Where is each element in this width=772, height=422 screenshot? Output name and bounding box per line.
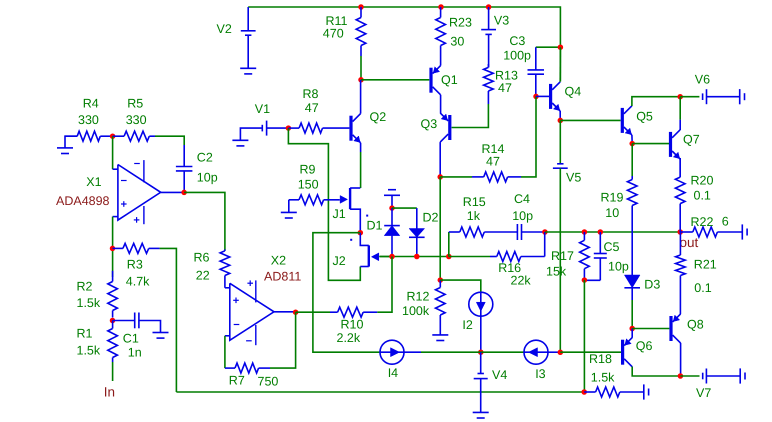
svg-text:I4: I4 — [388, 366, 398, 380]
svg-text:470: 470 — [323, 27, 344, 41]
svg-text:750: 750 — [258, 375, 279, 389]
wire X2 in- down — [224, 336, 226, 368]
node top rail / V3 — [486, 4, 492, 10]
svg-text:X2: X2 — [271, 253, 286, 267]
node C3 bottom / Q4 base — [533, 94, 539, 100]
resistor R14 — [440, 176, 472, 178]
svg-text:330: 330 — [78, 113, 99, 127]
wire I4 right to I2 node — [404, 351, 421, 353]
svg-text:30: 30 — [450, 35, 464, 49]
svg-text:15k: 15k — [546, 265, 567, 279]
resistor R20 — [679, 158, 681, 177]
J1 drain lead — [350, 187, 360, 189]
transistor Q4 — [549, 84, 552, 109]
voltage source V3 — [488, 7, 490, 30]
wire out line — [545, 231, 680, 233]
wire bottom rail — [176, 391, 584, 393]
svg-text:C1: C1 — [123, 331, 139, 345]
X2 in+ stub — [225, 287, 230, 289]
transistor Q1 — [429, 68, 432, 93]
ground at R9 left — [288, 200, 290, 213]
svg-text:R3: R3 — [127, 257, 143, 271]
node R11 bottom / Q1 base / Q2 collector — [358, 77, 364, 83]
resistor R22 — [680, 231, 693, 233]
wire Q1 base from R11 node — [361, 79, 429, 81]
transistor Q8 — [669, 316, 672, 341]
resistor R12 — [439, 280, 441, 287]
ground below V4 — [473, 411, 489, 413]
J1 source lead — [350, 209, 360, 233]
svg-text:D2: D2 — [423, 211, 439, 225]
Q4 base wire — [536, 95, 549, 97]
svg-text:0.1: 0.1 — [694, 281, 711, 295]
svg-text:X1: X1 — [86, 175, 101, 189]
svg-text:10p: 10p — [608, 259, 629, 273]
node top right / V6 — [677, 94, 683, 100]
svg-text:V1: V1 — [255, 102, 270, 116]
svg-text:0.1: 0.1 — [694, 189, 711, 203]
Q7 emitter wire — [679, 159, 681, 177]
resistor R21 — [679, 232, 681, 255]
svg-text:R18: R18 — [589, 352, 612, 366]
wire R5 to C2 top — [155, 136, 184, 145]
svg-text:R9: R9 — [300, 162, 316, 176]
resistor R17 — [583, 232, 585, 240]
voltage source V7 — [680, 375, 699, 377]
diode D2 — [416, 208, 418, 228]
svg-text:10p: 10p — [197, 170, 218, 184]
resistor R4 — [65, 135, 77, 137]
node Q8 collector / V7 — [678, 373, 684, 379]
svg-text:Q3: Q3 — [421, 117, 438, 131]
voltage source V5 — [559, 120, 561, 163]
wire Q5 emitter node to Q7 base — [632, 143, 669, 145]
Q5 emitter wire — [631, 135, 633, 144]
svg-text:C2: C2 — [197, 150, 213, 164]
capacitor C5 — [599, 232, 601, 254]
voltage source V2 — [247, 7, 249, 31]
wire x=560 rail down to Q4 collector — [559, 47, 561, 81]
svg-text:1n: 1n — [128, 345, 142, 359]
wire R3 right to bottom rail — [160, 248, 177, 392]
node R1/R2/C1 — [110, 318, 116, 324]
node Q4 emitter / V5 / Q5 base — [558, 118, 564, 124]
X1 supply bar bottom — [143, 206, 145, 224]
svg-text:Q2: Q2 — [370, 110, 387, 124]
svg-text:47: 47 — [498, 81, 512, 95]
transistor Q5 — [621, 108, 624, 133]
node I2 / rail / V4 — [478, 349, 484, 355]
node rail / V5 bottom — [558, 350, 564, 356]
svg-text:V7: V7 — [696, 386, 711, 400]
svg-text:4.7k: 4.7k — [126, 274, 150, 288]
svg-text:R7: R7 — [229, 373, 245, 387]
svg-text:330: 330 — [126, 113, 147, 127]
capacitor C2 — [183, 145, 185, 167]
transistor Q7 — [669, 132, 672, 157]
svg-text:R2: R2 — [77, 279, 93, 293]
voltage source V6 — [680, 96, 699, 98]
resistor R3 — [113, 247, 123, 249]
terminator R22 — [741, 224, 743, 239]
Q6 emitter wire — [631, 329, 633, 338]
svg-text:D1: D1 — [367, 219, 383, 233]
pin dot J2 — [350, 239, 352, 241]
svg-text:C4: C4 — [514, 192, 530, 206]
wire Q3 collector down to node — [439, 142, 441, 177]
node bottom rail / R18 — [581, 389, 587, 395]
J2 source lead — [360, 266, 369, 268]
resistor R10 — [296, 311, 330, 313]
node R15/R16 left — [446, 254, 452, 260]
wire X1 in- drop — [112, 136, 114, 169]
X1 supply bar top — [143, 160, 145, 182]
svg-text:V4: V4 — [492, 368, 507, 382]
svg-text:R17: R17 — [551, 249, 574, 263]
wire I2 node to I3 — [481, 351, 524, 353]
svg-text:C5: C5 — [604, 240, 620, 254]
Q4 collector wire — [559, 47, 561, 82]
node R3 left — [110, 246, 116, 252]
svg-text:J2: J2 — [333, 254, 346, 268]
wire R13 bottom to Q3 base — [452, 104, 489, 128]
ground below R12 — [439, 317, 441, 335]
resistor R1 — [112, 321, 114, 329]
svg-text:R22: R22 — [691, 215, 714, 229]
diode D1 — [391, 208, 393, 226]
ground at C1 right — [153, 332, 169, 334]
wire Q3 collector node down — [439, 177, 441, 280]
X1 in+ stub — [113, 216, 118, 218]
X1 in- marker — [121, 180, 127, 182]
svg-text:I3: I3 — [535, 367, 545, 381]
svg-text:AD811: AD811 — [264, 270, 301, 284]
svg-text:V5: V5 — [566, 171, 581, 185]
node D2 bottom — [414, 254, 420, 260]
wire Q4 emitter node to Q5 base — [560, 119, 620, 121]
svg-text:Q6: Q6 — [636, 339, 653, 353]
node J1 source / J2 drain — [358, 230, 364, 236]
svg-text:100p: 100p — [503, 49, 531, 63]
X2 supply bar bottom — [255, 325, 257, 345]
wire Q2 collector up to R11 node — [360, 80, 362, 114]
I2 bottom lead — [480, 316, 482, 352]
ground above D1 — [391, 195, 393, 208]
svg-text:R6: R6 — [194, 251, 210, 265]
node top rail / R11 — [358, 4, 364, 10]
node R12 top — [438, 277, 444, 283]
X1 in+ marker — [121, 203, 127, 205]
op-amp X2 — [230, 283, 274, 340]
wire R12 node to I2 — [440, 280, 481, 292]
wire J1/J2 node left and down to I4 — [313, 233, 380, 353]
Q4 emitter wire — [559, 111, 561, 120]
svg-text:1.5k: 1.5k — [77, 296, 101, 310]
node top rail / R23 — [438, 4, 444, 10]
svg-text:R10: R10 — [341, 318, 364, 332]
node D1 bottom — [389, 254, 395, 260]
wire top rail from V2 to x=560 — [248, 7, 560, 47]
svg-text:1k: 1k — [467, 209, 481, 223]
svg-text:R19: R19 — [601, 190, 624, 204]
svg-text:100k: 100k — [402, 304, 430, 318]
svg-text:V6: V6 — [695, 72, 710, 86]
svg-text:I2: I2 — [462, 318, 472, 332]
current source I4 — [380, 340, 404, 364]
svg-text:10p: 10p — [512, 209, 533, 223]
svg-text:R5: R5 — [127, 97, 143, 111]
Q8 emitter wire — [679, 313, 681, 315]
wire in+ down — [112, 217, 114, 277]
svg-text:6: 6 — [722, 215, 729, 229]
transistor Q6 — [621, 340, 624, 365]
svg-text:22: 22 — [196, 269, 210, 283]
svg-text:In: In — [104, 385, 115, 400]
wire Q8 base — [632, 328, 669, 330]
svg-text:C3: C3 — [509, 34, 525, 48]
node out — [677, 229, 683, 235]
svg-text:Q4: Q4 — [565, 84, 582, 98]
svg-text:22k: 22k — [511, 273, 532, 287]
Q8 collector wire — [680, 343, 682, 376]
jfet J2 — [368, 245, 370, 266]
Q7 collector wire — [679, 120, 681, 130]
svg-text:2.2k: 2.2k — [337, 331, 361, 345]
svg-text:J1: J1 — [333, 207, 346, 221]
node R17 top — [582, 229, 588, 235]
wire R17 bottom down to bottom rail — [583, 280, 585, 392]
svg-text:Q1: Q1 — [441, 73, 458, 87]
I3 right lead — [548, 351, 560, 353]
svg-text:R1: R1 — [77, 326, 93, 340]
wire Q1 collector down to Q3 emitter — [440, 95, 442, 113]
resistor R9 — [289, 199, 299, 201]
ground at R4 left — [65, 136, 77, 148]
svg-text:R12: R12 — [407, 289, 430, 303]
resistor R18 — [584, 391, 595, 393]
svg-text:10: 10 — [605, 206, 619, 220]
svg-text:R20: R20 — [691, 173, 714, 187]
capacitor C1 — [113, 320, 135, 322]
voltage source V1 — [240, 128, 262, 140]
resistor R16 — [449, 256, 490, 258]
wire diode bottom line — [380, 256, 449, 258]
wire V1 node down to J2 source — [288, 128, 360, 280]
current source I2 — [469, 292, 493, 316]
svg-text:V2: V2 — [217, 22, 232, 36]
svg-text:47: 47 — [486, 154, 500, 168]
svg-text:150: 150 — [298, 178, 319, 192]
resistor R11 — [360, 7, 362, 18]
resistor R7 — [225, 367, 235, 369]
X1 output stub — [161, 191, 184, 193]
svg-text:V3: V3 — [494, 14, 509, 28]
wire R10 right up to diode node — [377, 257, 392, 313]
svg-text:1.5k: 1.5k — [591, 370, 615, 384]
svg-text:47: 47 — [305, 101, 319, 115]
current source I3 — [524, 340, 548, 364]
transistor Q3 — [448, 115, 451, 140]
svg-text:Q7: Q7 — [683, 133, 700, 147]
wire R7 right up to X2 out — [270, 312, 296, 368]
wire In lead — [112, 362, 114, 381]
voltage source V4 — [480, 352, 482, 373]
node C4 / R16 / out line — [542, 229, 548, 235]
node C3 top corner — [558, 44, 564, 50]
svg-text:R23: R23 — [449, 16, 472, 30]
diode D3 — [631, 232, 633, 275]
wire X1 out to R6 — [184, 192, 225, 250]
transistor Q2 — [349, 116, 352, 141]
ground below V1 — [232, 139, 248, 141]
svg-text:R21: R21 — [694, 257, 717, 271]
resistor R2 — [112, 271, 114, 282]
ground below V2 — [240, 67, 256, 69]
resistor R13 — [487, 64, 489, 67]
capacitor C4 — [516, 224, 518, 240]
svg-text:ADA4898: ADA4898 — [56, 194, 110, 208]
X2 output stub — [274, 311, 296, 313]
node D1 top — [389, 205, 395, 211]
svg-text:out: out — [680, 235, 699, 250]
X2 in- marker — [234, 324, 240, 326]
Q5 collector wire — [632, 97, 680, 106]
svg-text:R15: R15 — [463, 195, 486, 209]
wire R14 right up to Q4 base node — [521, 96, 536, 176]
svg-text:R4: R4 — [83, 97, 99, 111]
pin dot J1 — [366, 215, 368, 217]
resistor R5 — [113, 135, 125, 137]
node X2 out — [293, 309, 299, 315]
node R17/C5 bottom — [582, 277, 588, 283]
wire rail to Q6 base — [560, 351, 621, 353]
resistor R6 — [224, 249, 226, 250]
resistor R19 — [631, 144, 633, 176]
resistor R8 — [288, 127, 299, 129]
capacitor C3 — [536, 46, 561, 48]
svg-text:D3: D3 — [644, 278, 660, 292]
resistor R15 — [448, 232, 450, 257]
svg-text:Q5: Q5 — [636, 110, 653, 124]
resistor R23 — [440, 7, 442, 18]
J2 drain lead — [360, 233, 369, 246]
terminator V6 — [739, 89, 741, 104]
Q6 collector wire — [632, 367, 680, 376]
X2 in- stub — [225, 335, 230, 337]
node D3 bottom / Q6 emitter / Q8 base — [629, 326, 635, 332]
terminator V7 — [739, 368, 741, 383]
node X1 out / C2 bottom — [181, 190, 187, 196]
terminator R18 — [643, 384, 645, 399]
J2 gate wire — [379, 256, 392, 258]
node Q3 collector / R14 — [437, 174, 443, 180]
X2 supply bar top — [255, 280, 257, 302]
node V1 / R8 — [286, 125, 292, 131]
node C5 top — [598, 229, 604, 235]
jfet J1 — [349, 188, 351, 209]
node Q5 emitter / Q7 base / R19 — [629, 141, 635, 147]
svg-text:R8: R8 — [303, 87, 319, 101]
svg-text:Q8: Q8 — [687, 318, 704, 332]
wire D1 top to D2 top — [392, 207, 417, 209]
node R4/R5/X1 in- — [110, 133, 116, 139]
svg-text:1.5k: 1.5k — [77, 343, 101, 357]
wire Q2 emitter down to J1 drain — [360, 143, 362, 152]
op-amp X1 — [118, 165, 161, 221]
X2 in+ marker — [233, 299, 239, 301]
